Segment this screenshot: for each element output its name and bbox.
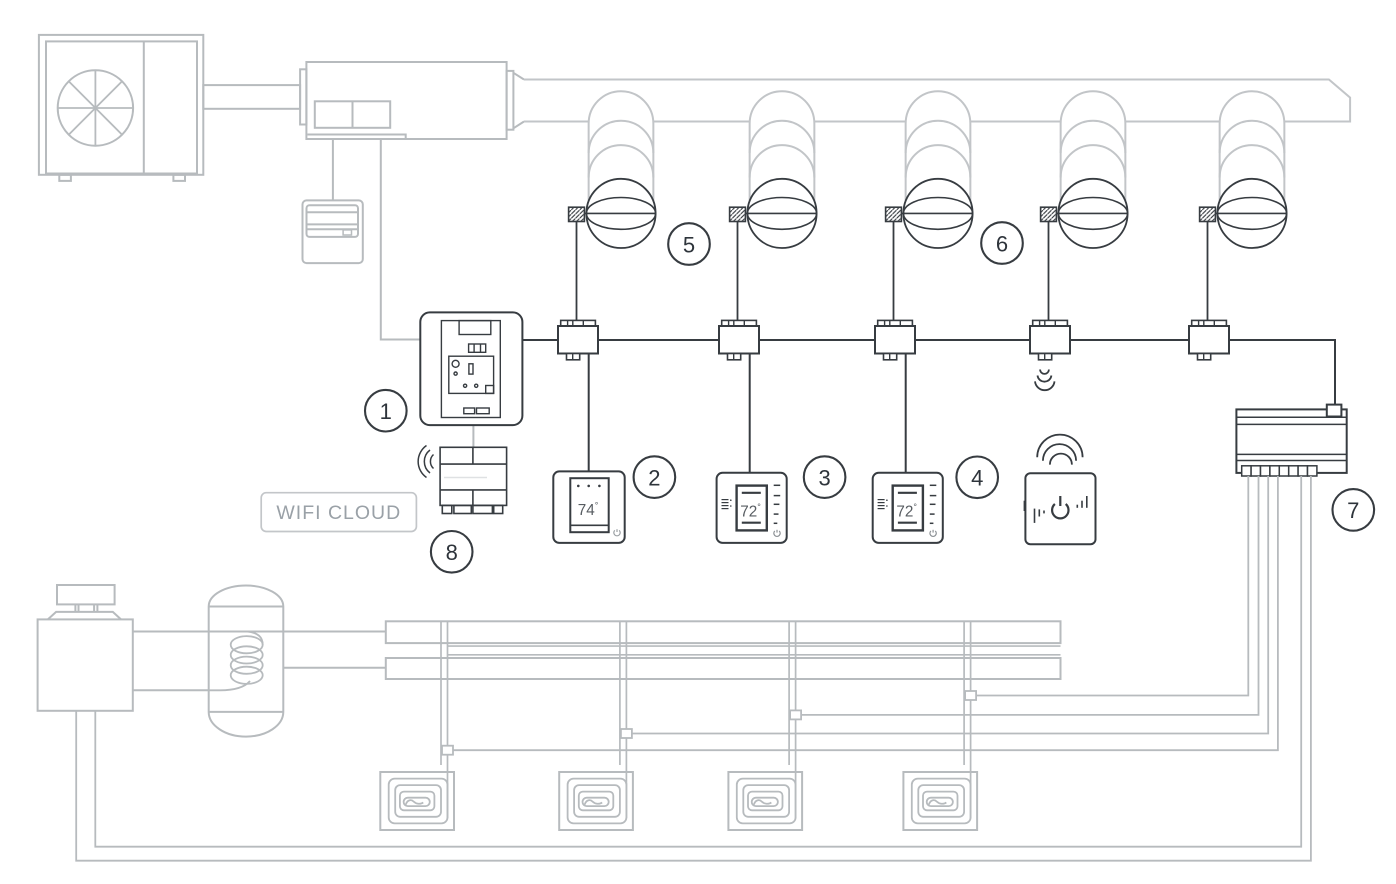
svg-text:1: 1 (380, 399, 392, 424)
svg-text:4: 4 (971, 466, 983, 491)
svg-text:3: 3 (818, 465, 830, 490)
svg-text:7: 7 (1347, 498, 1359, 523)
svg-text:WIFI CLOUD: WIFI CLOUD (276, 502, 401, 524)
svg-text:6: 6 (996, 231, 1008, 256)
svg-text:2: 2 (648, 465, 660, 490)
svg-text:5: 5 (683, 232, 695, 257)
svg-text:8: 8 (446, 540, 458, 565)
